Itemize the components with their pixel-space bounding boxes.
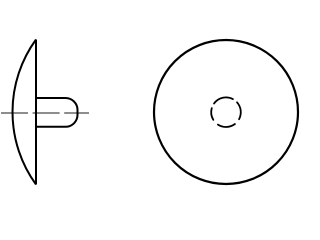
cap outer circle (front view) bbox=[154, 40, 298, 184]
hidden stem dashed circle, bottom arc (front view) bbox=[218, 124, 235, 127]
cap flat face (vertical line, side view) bbox=[35, 40, 37, 185]
hidden stem dashed circle, right arc (front view) bbox=[237, 102, 241, 119]
hidden stem dashed circle, top arc (front view) bbox=[214, 97, 233, 103]
hidden stem dashed circle, left arc (front view) bbox=[211, 108, 213, 120]
cap stem outline (side view) bbox=[36, 98, 78, 127]
centerline (side view axis) bbox=[1, 112, 89, 114]
cap dome arc (side view) bbox=[13, 40, 36, 185]
